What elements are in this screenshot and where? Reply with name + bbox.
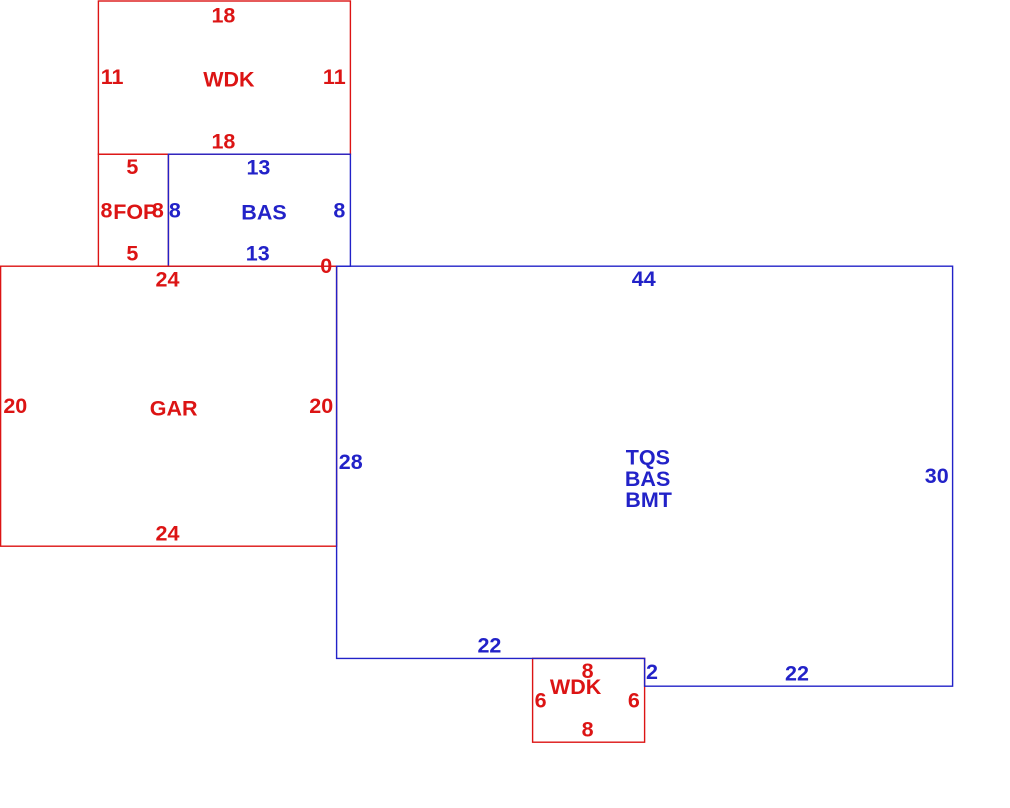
svg-text:WDK: WDK [550,675,602,699]
svg-text:8: 8 [152,199,164,223]
svg-text:13: 13 [246,156,270,180]
svg-text:20: 20 [309,394,333,418]
svg-text:30: 30 [925,464,949,488]
svg-text:18: 18 [211,3,235,27]
svg-text:5: 5 [126,241,138,265]
svg-text:BMT: BMT [625,488,672,512]
svg-text:GAR: GAR [150,396,198,420]
svg-text:44: 44 [632,267,656,291]
svg-text:8: 8 [333,199,345,223]
svg-text:6: 6 [628,688,640,712]
svg-text:8: 8 [582,718,594,742]
svg-text:13: 13 [246,241,270,265]
svg-text:2: 2 [646,660,658,684]
svg-text:24: 24 [156,522,180,546]
svg-text:WDK: WDK [203,68,255,92]
svg-text:11: 11 [323,65,346,89]
svg-text:8: 8 [169,199,181,223]
svg-text:0: 0 [320,254,332,278]
svg-text:11: 11 [101,65,124,89]
svg-text:18: 18 [211,130,235,154]
svg-text:5: 5 [126,155,138,179]
svg-text:FOP: FOP [113,200,157,224]
svg-text:28: 28 [339,450,363,474]
svg-text:6: 6 [535,688,547,712]
svg-text:24: 24 [156,268,180,292]
svg-text:8: 8 [101,199,113,223]
svg-text:22: 22 [785,662,809,686]
svg-text:22: 22 [477,633,501,657]
svg-text:BAS: BAS [241,201,286,225]
svg-text:20: 20 [3,394,27,418]
